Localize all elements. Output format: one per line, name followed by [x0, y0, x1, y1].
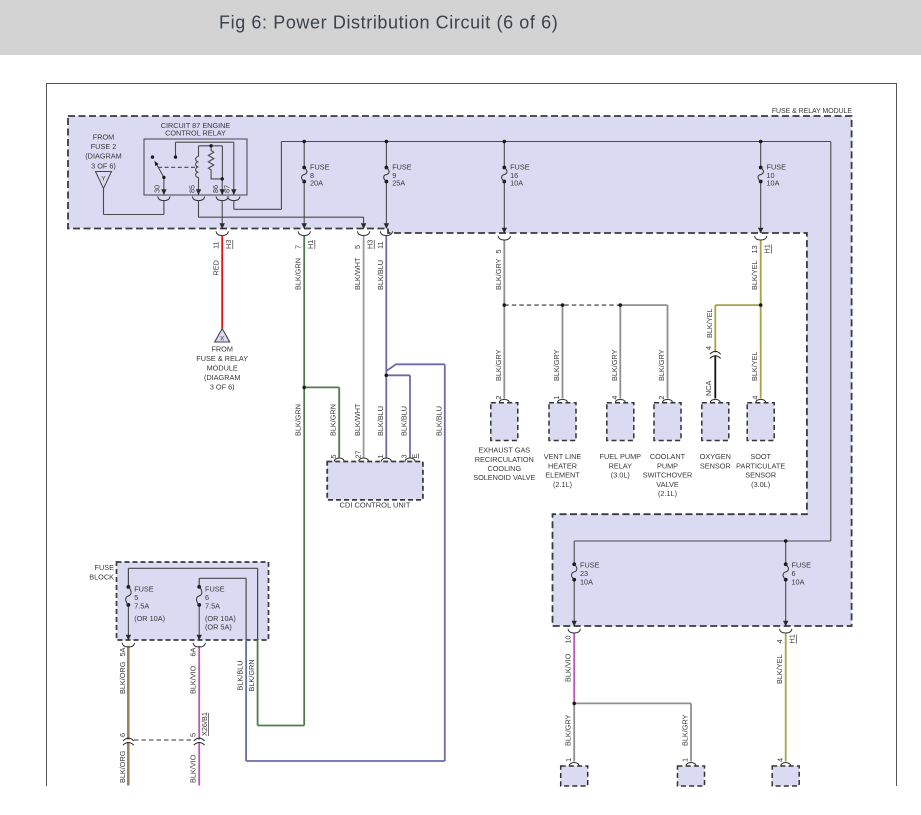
svg-text:H1: H1 — [788, 634, 797, 643]
svg-text:BLK/YEL: BLK/YEL — [750, 351, 759, 381]
svg-text:BLK/GRN: BLK/GRN — [247, 659, 256, 691]
svg-text:BLK/GRY: BLK/GRY — [564, 714, 573, 746]
svg-text:BLK/ORG: BLK/ORG — [118, 750, 127, 783]
svg-text:Fig 6: Power Distribution Circ: Fig 6: Power Distribution Circuit (6 of … — [219, 13, 558, 33]
svg-text:4: 4 — [775, 758, 784, 762]
svg-text:BLK/GRY: BLK/GRY — [494, 349, 503, 381]
svg-text:H3: H3 — [224, 240, 233, 249]
svg-text:BLK/BLU: BLK/BLU — [400, 406, 409, 436]
svg-text:(DIAGRAM: (DIAGRAM — [85, 152, 122, 161]
svg-text:FUSE 2: FUSE 2 — [91, 142, 117, 151]
svg-text:PARTICULATE: PARTICULATE — [736, 461, 785, 470]
svg-text:BLK/YEL: BLK/YEL — [775, 654, 784, 684]
svg-text:VENT LINE: VENT LINE — [544, 452, 582, 461]
svg-text:BLK/GRN: BLK/GRN — [294, 404, 303, 436]
svg-text:SENSOR: SENSOR — [700, 461, 731, 470]
svg-text:13: 13 — [750, 245, 759, 253]
svg-text:1: 1 — [552, 396, 561, 400]
svg-text:SWITCHOVER: SWITCHOVER — [643, 471, 692, 480]
svg-text:BLK/WHT: BLK/WHT — [353, 257, 362, 290]
svg-text:COOLING: COOLING — [487, 464, 521, 473]
svg-text:H3: H3 — [366, 240, 375, 249]
svg-text:PUMP: PUMP — [657, 461, 678, 470]
svg-text:(3.0L): (3.0L) — [751, 480, 770, 489]
svg-text:7.5A: 7.5A — [134, 602, 149, 611]
svg-text:FUEL PUMP: FUEL PUMP — [600, 452, 642, 461]
svg-text:5: 5 — [189, 733, 198, 737]
svg-text:5: 5 — [353, 245, 362, 249]
svg-text:BLK/GRY: BLK/GRY — [494, 258, 503, 290]
svg-text:10A: 10A — [580, 578, 593, 587]
svg-text:H1: H1 — [763, 244, 772, 253]
svg-text:5A: 5A — [118, 647, 127, 656]
svg-text:HEATER: HEATER — [548, 461, 577, 470]
svg-text:BLK/VIO: BLK/VIO — [564, 653, 573, 682]
svg-text:ELEMENT: ELEMENT — [545, 471, 580, 480]
svg-text:BLK/WHT: BLK/WHT — [353, 403, 362, 436]
svg-text:10A: 10A — [767, 179, 780, 188]
svg-text:FUSE & RELAY: FUSE & RELAY — [196, 354, 248, 363]
svg-text:3 OF 6): 3 OF 6) — [91, 161, 116, 170]
svg-text:FROM: FROM — [211, 345, 232, 354]
svg-text:BLK/GRN: BLK/GRN — [294, 258, 303, 290]
svg-text:(2.1L): (2.1L) — [553, 480, 572, 489]
svg-text:BLK/GRY: BLK/GRY — [681, 714, 690, 746]
svg-text:RED: RED — [212, 260, 221, 275]
svg-text:87: 87 — [223, 185, 232, 193]
svg-text:(2.1L): (2.1L) — [658, 489, 677, 498]
svg-text:10: 10 — [564, 635, 573, 643]
svg-text:SENSOR: SENSOR — [745, 471, 776, 480]
svg-text:5: 5 — [494, 249, 503, 253]
svg-text:X: X — [220, 336, 225, 343]
svg-text:BLK/BLU: BLK/BLU — [434, 406, 443, 436]
svg-text:COOLANT: COOLANT — [650, 452, 686, 461]
svg-text:FUSE: FUSE — [95, 563, 115, 572]
svg-text:10A: 10A — [510, 179, 523, 188]
svg-text:20A: 20A — [310, 179, 323, 188]
svg-text:BLK/YEL: BLK/YEL — [705, 308, 714, 338]
svg-text:4: 4 — [750, 396, 759, 400]
svg-text:MODULE: MODULE — [207, 364, 238, 373]
svg-text:E: E — [410, 454, 419, 459]
svg-text:1: 1 — [681, 758, 690, 762]
svg-text:6A: 6A — [189, 647, 198, 656]
svg-text:4: 4 — [610, 396, 619, 400]
svg-text:BLK/VIO: BLK/VIO — [189, 665, 198, 694]
svg-text:30: 30 — [153, 185, 162, 193]
svg-text:BLK/ORG: BLK/ORG — [118, 661, 127, 694]
svg-text:SOOT: SOOT — [750, 452, 771, 461]
svg-text:BLK/GRY: BLK/GRY — [610, 349, 619, 381]
svg-text:11: 11 — [212, 241, 221, 249]
svg-text:X26/B1: X26/B1 — [200, 712, 209, 736]
svg-text:1: 1 — [564, 758, 573, 762]
svg-text:7.5A: 7.5A — [205, 602, 220, 611]
svg-text:BLK/BLU: BLK/BLU — [236, 660, 245, 690]
svg-text:6: 6 — [118, 733, 127, 737]
svg-text:BLK/BLU: BLK/BLU — [376, 406, 385, 436]
svg-text:4: 4 — [704, 346, 713, 350]
svg-text:FROM: FROM — [93, 133, 114, 142]
svg-text:BLK/YEL: BLK/YEL — [750, 260, 759, 290]
svg-text:BLK/GRY: BLK/GRY — [552, 349, 561, 381]
svg-text:BLK/GRY: BLK/GRY — [657, 349, 666, 381]
svg-text:VALVE: VALVE — [656, 480, 679, 489]
svg-text:H1: H1 — [306, 240, 315, 249]
svg-text:(3.0L): (3.0L) — [611, 471, 630, 480]
svg-text:EXHAUST GAS: EXHAUST GAS — [478, 446, 530, 455]
svg-text:BLK/BLU: BLK/BLU — [376, 260, 385, 290]
svg-text:27: 27 — [353, 450, 362, 458]
svg-text:85: 85 — [187, 185, 196, 193]
svg-text:BLK/VIO: BLK/VIO — [189, 754, 198, 783]
svg-text:FUSE & RELAY MODULE: FUSE & RELAY MODULE — [772, 108, 853, 115]
svg-text:5: 5 — [329, 454, 338, 458]
svg-text:2: 2 — [494, 396, 503, 400]
svg-text:BLOCK: BLOCK — [89, 573, 114, 582]
svg-text:25A: 25A — [392, 179, 405, 188]
svg-text:RELAY: RELAY — [609, 461, 633, 470]
svg-text:11: 11 — [376, 241, 385, 249]
svg-text:10A: 10A — [792, 578, 805, 587]
svg-text:4: 4 — [775, 639, 784, 643]
svg-text:CDI CONTROL UNIT: CDI CONTROL UNIT — [340, 501, 411, 510]
svg-text:86: 86 — [211, 185, 220, 193]
svg-text:1: 1 — [376, 454, 385, 458]
svg-text:(OR 10A): (OR 10A) — [134, 614, 165, 623]
svg-text:(OR 5A): (OR 5A) — [205, 623, 232, 632]
svg-text:7: 7 — [294, 245, 303, 249]
svg-text:NCA: NCA — [704, 380, 713, 396]
svg-text:RECIRCULATION: RECIRCULATION — [475, 455, 534, 464]
svg-text:CONTROL RELAY: CONTROL RELAY — [165, 129, 226, 138]
svg-text:(DIAGRAM: (DIAGRAM — [204, 373, 241, 382]
svg-text:Y: Y — [101, 176, 106, 183]
svg-text:BLK/GRN: BLK/GRN — [329, 404, 338, 436]
svg-text:SOLENOID VALVE: SOLENOID VALVE — [473, 473, 535, 482]
svg-text:OXYGEN: OXYGEN — [700, 452, 731, 461]
svg-text:3 OF 6): 3 OF 6) — [210, 383, 235, 392]
svg-text:2: 2 — [657, 396, 666, 400]
svg-text:3: 3 — [400, 454, 409, 458]
